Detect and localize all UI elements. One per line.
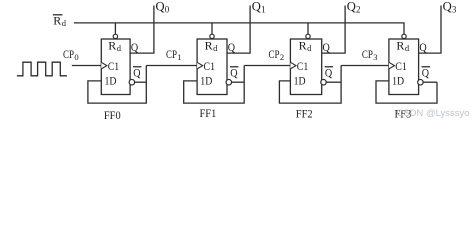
svg-text:C1: C1 [108,59,120,73]
svg-text:1D: 1D [105,74,117,88]
svg-text:2: 2 [356,5,361,15]
svg-text:Q: Q [228,40,236,54]
svg-text:1: 1 [261,5,266,15]
Qbar output bubble of FF1 [226,79,232,85]
node Q3 label [443,0,457,15]
flip-flop U1 FF1 box [197,39,227,95]
svg-text:d: d [62,18,67,28]
wire Qbar of FF2 to feedback node [326,81,341,83]
wire Rd stub to FF0 [114,23,116,34]
svg-text:R: R [299,38,307,52]
svg-text:1D: 1D [200,74,212,88]
pin label Rd of FF0 [108,38,122,53]
svg-text:C1: C1 [297,59,309,73]
Qbar output bubble of FF2 [321,79,327,85]
svg-text:CSDN @Lysssyo: CSDN @Lysssyo [397,108,470,119]
svg-text:Q: Q [419,40,427,54]
pin label Qbar of FF1 [230,65,238,79]
node Q0 label [156,0,170,15]
label Rd (active-low reset) [53,13,67,28]
svg-text:3: 3 [452,5,457,15]
svg-text:Q: Q [422,65,430,79]
svg-text:Q: Q [252,0,261,14]
svg-text:FF0: FF0 [104,108,121,122]
svg-text:CP: CP [63,47,74,61]
net Rd bus line [74,23,404,34]
pin label Qbar of FF0 [133,65,141,79]
svg-text:3: 3 [373,52,377,62]
svg-text:d: d [213,43,218,53]
wire feedback loop FF2 (Qbar to 1D) [279,66,341,104]
wire Q2 output riser [322,6,345,54]
flip-flop U0 FF0 box [101,39,130,95]
svg-text:Q: Q [131,40,139,54]
svg-text:Q: Q [325,65,333,79]
pin label Rd of FF3 [396,38,410,53]
wire CP0 to C1 of FF0 [72,65,102,67]
svg-text:R: R [53,13,61,27]
wire Q1 output riser [227,6,250,54]
svg-text:0: 0 [165,5,170,15]
label CP3 [362,47,378,62]
svg-text:C1: C1 [395,59,407,73]
wire feedback loop FF1 (Qbar to 1D) [184,66,245,104]
svg-text:FF1: FF1 [200,106,217,120]
svg-text:Q: Q [230,65,238,79]
Rd inverter bubble FF1 [210,34,214,38]
flip-flop U3 FF3 box [389,39,419,95]
label CP1 [166,47,182,62]
svg-text:Q: Q [156,0,165,14]
clock edge wedge C1 of FF1 [197,62,203,69]
svg-text:R: R [205,38,213,52]
svg-text:d: d [405,43,410,53]
svg-text:1D: 1D [294,74,306,88]
pin label Qbar of FF2 [325,65,333,79]
svg-text:Q: Q [443,0,452,14]
svg-text:2: 2 [280,52,284,62]
svg-text:CP: CP [269,47,280,61]
wire CP1 from Qbar of FF0 to C1 of FF1 [146,65,197,67]
svg-text:CP: CP [166,47,177,61]
wire Qbar of FF1 to feedback node [231,81,244,83]
svg-text:Q: Q [133,65,141,79]
clock edge wedge C1 of FF0 [101,62,107,69]
wire CP2 from Qbar of FF1 to C1 of FF2 [244,65,290,67]
Rd inverter bubble FF0 [113,34,117,38]
pin label Rd of FF1 [205,38,219,53]
wire Rd stub to FF2 [307,23,309,34]
svg-text:1D: 1D [392,74,404,88]
clock edge wedge C1 of FF3 [389,62,395,69]
Rd inverter bubble FF3 [402,34,406,38]
wire feedback loop FF3 (Qbar to 1D) [376,81,437,103]
svg-text:Q: Q [347,0,356,14]
Rd inverter bubble FF2 [306,34,310,38]
svg-text:Q: Q [323,40,331,54]
svg-text:C1: C1 [204,59,216,73]
svg-text:d: d [117,43,122,53]
pin label Rd of FF2 [299,38,313,53]
wire Q3 output riser [419,6,441,54]
label CP2 [269,47,285,62]
wire CP3 from Qbar of FF2 to C1 of FF3 [341,65,389,67]
node Q1 label [252,0,266,15]
node Q2 label [347,0,361,15]
flip-flop U2 FF2 box [290,39,321,95]
Qbar output bubble of FF0 [129,79,135,85]
svg-text:1: 1 [177,52,181,62]
svg-text:FF2: FF2 [296,107,313,121]
svg-text:0: 0 [74,52,78,62]
clock edge wedge C1 of FF2 [290,62,296,69]
clock input square waveform [17,62,67,76]
wire feedback loop FF0 (Qbar to 1D) [88,66,146,104]
svg-text:R: R [108,38,116,52]
label CP0 [63,47,79,62]
wire Q0 output riser [130,6,154,54]
svg-text:d: d [307,43,312,53]
wire Rd stub to FF1 [211,23,213,34]
pin label Qbar of FF3 [422,65,430,79]
Qbar output bubble of FF3 [418,79,424,85]
wire Qbar of FF0 to feedback node [135,81,147,83]
svg-text:R: R [396,38,404,52]
svg-text:CP: CP [362,47,373,61]
wire Qbar of FF3 to feedback node [423,81,437,83]
